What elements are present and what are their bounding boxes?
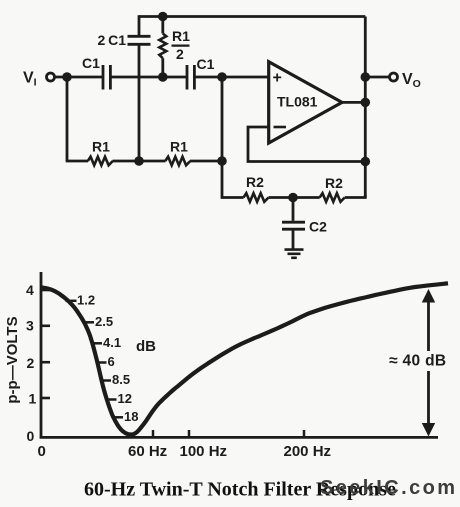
svg-text:≈ 40 dB: ≈ 40 dB	[389, 353, 446, 370]
svg-text:+: +	[273, 70, 282, 87]
svg-text:4.1: 4.1	[103, 335, 121, 350]
wire node B up through main wire to 2C1	[138, 44, 141, 161]
node A junction	[158, 72, 168, 82]
curve tick 2.5 dB	[83, 321, 94, 324]
wire top rail	[139, 15, 365, 18]
wire C1 to op-amp + input	[194, 76, 268, 79]
output terminal	[390, 73, 398, 81]
svg-text:200 Hz: 200 Hz	[284, 443, 332, 460]
svg-text:VI: VI	[23, 70, 37, 89]
svg-text:TL081: TL081	[277, 94, 318, 110]
svg-text:3: 3	[26, 318, 34, 334]
y-axis tick 1	[41, 397, 50, 400]
svg-text:2 C1: 2 C1	[98, 32, 127, 48]
wire Vo stub	[365, 76, 389, 79]
svg-text:C1: C1	[82, 55, 100, 71]
x-axis tick 200Hz	[303, 430, 306, 437]
svg-text:8.5: 8.5	[112, 372, 130, 387]
capacitor 2C1	[98, 32, 151, 48]
junction node B	[134, 156, 144, 166]
svg-text:C1: C1	[197, 56, 215, 72]
svg-text:VO: VO	[402, 71, 421, 90]
wire R1 to right junction	[190, 160, 222, 163]
wire R2 to output vertical	[345, 195, 366, 198]
curve tick 1.2 dB	[66, 300, 77, 303]
svg-text:2: 2	[176, 46, 184, 62]
capacitor C2	[282, 198, 327, 250]
junction C2 node	[288, 193, 298, 203]
x-axis	[40, 436, 438, 439]
svg-text:R1: R1	[170, 139, 188, 155]
y-axis tick 2	[41, 361, 50, 364]
input terminal	[47, 73, 55, 81]
y-axis tick 4	[41, 289, 50, 292]
wire R1/2 down to node A	[161, 58, 164, 77]
junction input node	[62, 72, 72, 82]
wire 2C1 up to top rail	[138, 15, 141, 36]
svg-text:12: 12	[118, 391, 132, 406]
svg-text:R2: R2	[325, 175, 343, 191]
resistor R2 (left)	[244, 174, 269, 202]
svg-text:1.2: 1.2	[77, 292, 95, 307]
svg-text:p-p—VOLTS: p-p—VOLTS	[4, 316, 21, 403]
op-amp U1 TL081	[269, 62, 342, 143]
svg-text:60 Hz: 60 Hz	[128, 443, 167, 460]
junction feedback / output	[361, 157, 371, 167]
wire top rail to R1/2	[161, 17, 164, 34]
response curve	[40, 283, 448, 434]
svg-text:0: 0	[38, 443, 46, 460]
wire R2 to C2 node	[269, 196, 320, 199]
junction Vo tap	[361, 72, 371, 82]
resistor R2 (right)	[320, 175, 345, 202]
junction main wire to lower arm	[217, 72, 227, 82]
svg-text:18: 18	[124, 409, 138, 424]
wire junction down through R1 row to R2 row	[222, 77, 244, 198]
graph group	[40, 272, 448, 439]
wire R1 row left segment	[66, 160, 88, 163]
ground	[285, 250, 304, 258]
resistor R1 (right)	[165, 139, 190, 166]
svg-text:0: 0	[27, 428, 35, 444]
svg-text:2.5: 2.5	[95, 314, 113, 329]
curve tick 12 dB	[106, 398, 117, 401]
svg-text:C2: C2	[309, 219, 327, 235]
svg-text:R2: R2	[246, 174, 264, 190]
40 dB arrow	[422, 289, 435, 437]
svg-text:SeekIC.com: SeekIC.com	[320, 477, 457, 499]
wire R1 to node B	[113, 160, 166, 163]
curve tick 4.1 dB	[91, 342, 102, 345]
wire op-amp output	[342, 101, 365, 104]
y-axis tick 3	[41, 324, 50, 327]
svg-text:R1: R1	[92, 139, 110, 155]
svg-text:1: 1	[29, 391, 37, 407]
svg-text:R1: R1	[172, 28, 190, 44]
svg-text:6: 6	[108, 354, 115, 369]
curve tick 8.5 dB	[100, 379, 111, 382]
junction top rail / R1-2	[158, 12, 168, 22]
wire C1 to node A	[110, 76, 186, 79]
capacitor C1 (second)	[187, 56, 215, 90]
x-axis tick 60Hz	[152, 430, 155, 437]
svg-text:4: 4	[26, 282, 34, 298]
junction op-amp output	[361, 98, 371, 108]
curve tick 6 dB	[96, 361, 107, 364]
svg-text:dB: dB	[136, 338, 156, 355]
svg-text:100 Hz: 100 Hz	[180, 443, 228, 460]
capacitor C1 (input)	[82, 55, 110, 90]
wire feedback from inverting input	[248, 127, 365, 162]
wire input to C1	[55, 76, 103, 79]
resistor R1 (left)	[88, 139, 113, 166]
resistor R1/2	[159, 28, 190, 62]
wire input node down to R1 row	[66, 77, 69, 161]
wire output vertical	[364, 17, 367, 198]
junction R1 row right	[217, 156, 227, 166]
curve tick 18 dB	[112, 416, 123, 419]
svg-text:2: 2	[27, 355, 35, 371]
x-axis tick 100Hz	[188, 430, 191, 437]
y-axis	[40, 272, 43, 439]
